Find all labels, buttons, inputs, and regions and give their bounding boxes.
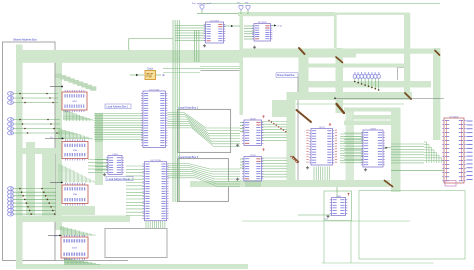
junction dots g1 [19, 93, 21, 95]
bundle RAM A to chip K [88, 159, 108, 161]
bus box Local Data Bus 1 [178, 109, 231, 152]
wires E left stubs [240, 122, 244, 124]
bus band top thin continuation [334, 13, 410, 15]
wire to clock net [129, 38, 173, 40]
bus band right vertical VH2 [391, 108, 401, 192]
svg-text:(7:0): (7:0) [278, 25, 283, 27]
wire I hline [391, 170, 444, 172]
wire CS D [48, 235, 62, 237]
ground G [307, 166, 309, 168]
tunnel b [239, 5, 243, 10]
bus band V3 [346, 110, 355, 186]
wires K left [95, 159, 108, 161]
fan into RAM A [58, 128, 62, 130]
wire thin outline J column [323, 221, 325, 263]
svg-text:TKb: TKb [245, 3, 248, 5]
wire thin outline big rect [359, 191, 465, 260]
splice V0 top [297, 110, 312, 122]
input connectors group 2 [8, 118, 14, 122]
svg-text:Local Address Bus 2: Local Address Bus 2 [108, 178, 130, 181]
input connectors group 1 [8, 92, 14, 96]
bus band top-right vertical [404, 13, 410, 100]
svg-text:6264: 6264 [73, 194, 77, 196]
bus band bottom horizontal [16, 264, 248, 269]
bus band left vertical 2 [26, 142, 35, 215]
bundle F right wires [262, 157, 288, 159]
label Local Address Bus 1 [105, 104, 131, 109]
bundle vertical feed left of ROM1 [95, 114, 97, 143]
ground H [365, 168, 367, 170]
junction dots g3 [19, 188, 21, 190]
ground J [327, 215, 329, 217]
RAM A [62, 142, 88, 159]
bus band left horizontal y148 [22, 148, 62, 154]
wire CS C [50, 86, 63, 88]
bundle I left wires [391, 143, 424, 145]
vcc E [263, 116, 265, 119]
bus band right vertical VR [433, 48, 440, 140]
bus band H3 [299, 81, 431, 88]
ground F [237, 178, 239, 180]
RAM C [62, 92, 87, 110]
splice H6 right [385, 181, 393, 187]
bundle H left wires [344, 132, 363, 134]
wire thin hline y221 [242, 220, 410, 222]
label Local Address Bus 2 [106, 177, 133, 181]
bus band V2 feed [334, 15, 337, 48]
wire clock out [156, 74, 161, 76]
bus box Shared Data Bus right edge [297, 77, 299, 187]
splice F left [293, 157, 299, 163]
wire J left out [298, 214, 332, 216]
wire clock in [130, 74, 144, 76]
bus band V0 wide head [272, 100, 287, 117]
wire thin bottom hline [322, 262, 434, 264]
bus band to H6 [190, 181, 240, 187]
bus band main horizontal H1a [16, 50, 240, 63]
bus band left vertical 3 [42, 150, 55, 222]
bus band under RAM B [16, 216, 130, 223]
RAM B [62, 185, 88, 204]
wire CS A [45, 138, 64, 140]
bus band V0 [287, 92, 296, 187]
fan into RAM D [60, 226, 64, 228]
fan into RAM B [58, 164, 62, 166]
wire tunnel stems [201, 10, 203, 14]
vcc J [348, 193, 350, 196]
wires T2 left [244, 25, 254, 27]
bus lines right of ROM1 [172, 20, 174, 202]
bus band H5a [352, 115, 400, 120]
bus band V2 [336, 48, 344, 113]
tap diagonal F [290, 156, 291, 157]
bundle DB1 shift [168, 113, 241, 129]
svg-text:62256: 62256 [72, 248, 77, 250]
input connectors group 3 [8, 187, 14, 191]
wire CS B [50, 182, 63, 184]
svg-text:Shared Data Bus: Shared Data Bus [277, 74, 295, 77]
svg-text:Test_apply_or_two?: Test_apply_or_two? [192, 2, 212, 5]
fan into U-I [424, 141, 427, 143]
splice VR top [435, 51, 440, 56]
ground T1 [204, 44, 206, 46]
bus band vertical to EF [240, 14, 244, 115]
wire top grey segment [201, 70, 244, 72]
bundle G to H wires [340, 133, 363, 135]
svg-text:Local Data Bus 1: Local Data Bus 1 [179, 106, 199, 110]
vcc F [263, 149, 265, 152]
wire J top [336, 187, 338, 198]
bundle below G [313, 167, 315, 181]
bus band H5 [344, 121, 400, 126]
box small top-right [398, 67, 411, 69]
bundle E right wires [262, 121, 288, 123]
svg-text:TKa: TKa [237, 3, 240, 5]
bus band top horizontal [238, 12, 334, 16]
splice V2 mid [337, 104, 345, 113]
svg-text:Clock: Clock [147, 68, 154, 70]
vcc G [329, 124, 331, 127]
splice V1 top [299, 48, 305, 54]
ground T2 [254, 46, 256, 48]
wire clk lines [163, 67, 240, 69]
bus band chips vertical [56, 62, 63, 230]
splice H92 corner [405, 93, 411, 99]
svg-text:Shared Address Bus: Shared Address Bus [13, 38, 37, 42]
wire dark horizontal [335, 97, 444, 99]
bus lines right of ROM1 b [194, 30, 196, 62]
bus band left vertical [16, 45, 23, 267]
wire ring inner [296, 103, 404, 105]
wire H right out [383, 147, 391, 149]
wires T1 right diode [224, 25, 232, 27]
bus band below RAM B [56, 206, 95, 215]
wires T1 left [175, 25, 206, 27]
bundle ROM2 bottom down [145, 221, 147, 228]
bundle to ROM2 left [126, 165, 144, 167]
ground E [237, 144, 239, 146]
bus band main horizontal H1b [240, 49, 356, 58]
junction dots g2 [19, 119, 21, 121]
bus band H4 [344, 108, 400, 112]
IC J 7408 [324, 191, 352, 221]
sheet box Shared Address Bus [3, 42, 56, 261]
fan into RAM C [56, 74, 62, 78]
fan below RAM D [64, 258, 68, 260]
bundle to ROM1 [94, 113, 143, 115]
bus band V1 [299, 54, 309, 92]
wire top long [202, 2, 440, 4]
bus box Shared Data Bus bottom edge [240, 186, 298, 188]
svg-text:U11: U11 [325, 218, 328, 220]
wire below H1a [200, 66, 240, 68]
svg-text:6264: 6264 [73, 150, 77, 152]
label box purple right [445, 181, 456, 187]
svg-text:6264: 6264 [72, 101, 76, 103]
bus band main horizontal H1b right [355, 49, 433, 54]
wires F left stubs [240, 158, 244, 160]
bus band left of ROM1 [95, 113, 103, 185]
bus band H2 [303, 64, 404, 68]
tunnel c [246, 5, 250, 10]
RAM D [61, 237, 88, 258]
splice V2 top corner [336, 57, 343, 63]
sheet box bottom edge extension [55, 260, 128, 262]
label Shared Data Bus [276, 73, 298, 77]
svg-text:Local Data Bus 2: Local Data Bus 2 [179, 155, 199, 159]
svg-text:Local Address Bus 1: Local Address Bus 1 [107, 106, 129, 109]
ground K [104, 173, 106, 175]
fan RAM C bottom [63, 110, 66, 112]
bus box Local Data Bus 2 [178, 159, 228, 202]
sheet box lower-center [105, 229, 167, 258]
wire T2 out arrow [271, 25, 275, 27]
tunnel a [200, 5, 204, 10]
bundle F bottom comb [245, 181, 247, 187]
bundle DB2 shift [168, 164, 241, 170]
IC I right pin text [467, 120, 473, 122]
bus band H6 [240, 180, 390, 187]
bus band H92 [287, 92, 413, 100]
tap diagonal E [268, 120, 269, 121]
